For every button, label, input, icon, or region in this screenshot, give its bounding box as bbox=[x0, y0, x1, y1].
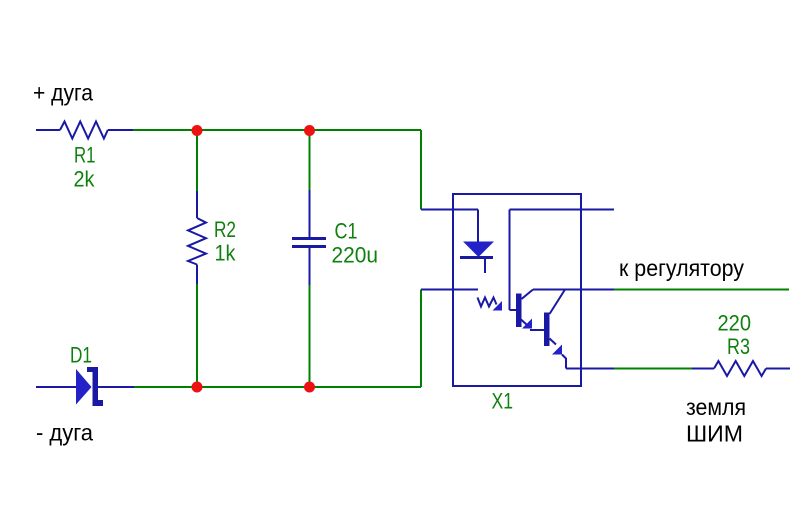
wire Q1 base link bbox=[510, 309, 517, 311]
optocoupler U-body X1 outer box bbox=[453, 194, 581, 386]
wire R3 right lead bbox=[766, 368, 790, 370]
wire Q1 emitter to Q2 base bbox=[530, 329, 544, 331]
wire LED anode vertical bbox=[477, 210, 479, 243]
transistor Q1 collector bbox=[522, 290, 534, 300]
wire top-left lead to R1 bbox=[36, 129, 60, 131]
svg-text:1k: 1k bbox=[215, 241, 237, 266]
wire R2 bottom lead bbox=[196, 265, 198, 285]
wire top rail drop to optocoupler anode bbox=[420, 130, 422, 210]
label R3 bbox=[727, 334, 750, 359]
wire C1 bottom lead bbox=[309, 248, 311, 285]
transistor Q2 collector bbox=[550, 290, 566, 315]
transistor Q2 emitter with arrow bbox=[550, 339, 567, 359]
transistor Q2 base bar bbox=[544, 313, 550, 347]
wire C1 top column green bbox=[309, 130, 311, 190]
svg-text:ШИМ: ШИМ bbox=[686, 421, 743, 447]
wire bottom-left lead to D1 bbox=[36, 386, 76, 388]
LED cathode stub bbox=[484, 259, 486, 273]
resistor R1 bbox=[60, 122, 108, 139]
resistor R3 bbox=[714, 361, 766, 376]
wire top pin stub of X1 bbox=[510, 209, 615, 211]
junction dot top node C1 bbox=[304, 125, 315, 136]
junction dot bottom node R2 bbox=[192, 382, 203, 393]
wire C1 top lead bbox=[309, 190, 311, 237]
junction dot top node R2 bbox=[192, 125, 203, 136]
svg-text:земля: земля bbox=[686, 394, 746, 420]
svg-text:R2: R2 bbox=[214, 217, 236, 242]
wire anode feed into X1 bbox=[421, 209, 478, 211]
wire emitter rail green bbox=[614, 368, 692, 370]
wire D1 to bottom node (blue part) bbox=[98, 386, 134, 388]
label - дуга bbox=[36, 420, 93, 446]
wire top rail green bbox=[133, 129, 421, 131]
svg-text:- дуга: - дуга bbox=[36, 420, 93, 446]
wire C1 bottom column green bbox=[309, 285, 311, 387]
svg-text:R3: R3 bbox=[727, 334, 750, 359]
label 2k value of R1 bbox=[74, 167, 96, 192]
wire R1 to top node (blue part) bbox=[108, 129, 133, 131]
label C1 bbox=[335, 219, 358, 244]
svg-text:2k: 2k bbox=[74, 167, 96, 192]
wire cathode feed into X1 bbox=[421, 289, 478, 291]
label + дуга bbox=[33, 80, 93, 106]
wire R2 top column green bbox=[196, 130, 198, 191]
light arrow from LED to phototransistor bbox=[478, 298, 503, 311]
label ШИМ bbox=[686, 421, 743, 447]
wire emitter rail blue to R3 bbox=[692, 368, 714, 370]
wire collector rail out of X1 blue bbox=[533, 289, 614, 291]
svg-text:R1: R1 bbox=[74, 143, 96, 168]
svg-text:+ дуга: + дуга bbox=[33, 80, 93, 106]
svg-text:к регулятору: к регулятору bbox=[619, 255, 744, 281]
svg-text:C1: C1 bbox=[335, 219, 358, 244]
svg-text:X1: X1 bbox=[492, 389, 514, 414]
resistor R2 bbox=[188, 218, 206, 265]
transistor Q1 base bar bbox=[516, 294, 522, 328]
LED cathode bar bbox=[460, 256, 493, 259]
label 1k value of R2 bbox=[215, 241, 237, 266]
label 220 value of R3 bbox=[718, 311, 752, 336]
wire collector rail green to regulator bbox=[614, 289, 789, 291]
capacitor C1 bbox=[292, 239, 326, 247]
LED of optocoupler bbox=[463, 242, 494, 258]
wire bottom rail green bbox=[134, 386, 421, 388]
label земля bbox=[686, 394, 746, 420]
label R2 bbox=[214, 217, 236, 242]
svg-text:220: 220 bbox=[718, 311, 752, 336]
transistor Q1 emitter with arrow bbox=[521, 319, 532, 329]
wire emitter out of X1 blue bbox=[566, 368, 614, 370]
wire inner collector-side vertical bbox=[509, 210, 511, 311]
svg-text:D1: D1 bbox=[70, 343, 92, 368]
label 220u value of C1 bbox=[332, 243, 379, 268]
label X1 bbox=[492, 389, 514, 414]
label D1 bbox=[70, 343, 92, 368]
junction dot bottom node C1 bbox=[304, 382, 315, 393]
label R1 bbox=[74, 143, 96, 168]
wire R2 top lead bbox=[196, 191, 198, 218]
wire bottom rail rise to optocoupler cathode bbox=[420, 290, 422, 388]
label к регулятору bbox=[619, 255, 744, 281]
svg-text:220u: 220u bbox=[332, 243, 379, 268]
diode D1 bbox=[76, 367, 103, 406]
wire Q2 emitter down bbox=[565, 358, 567, 369]
wire R2 bottom column green bbox=[196, 284, 198, 387]
